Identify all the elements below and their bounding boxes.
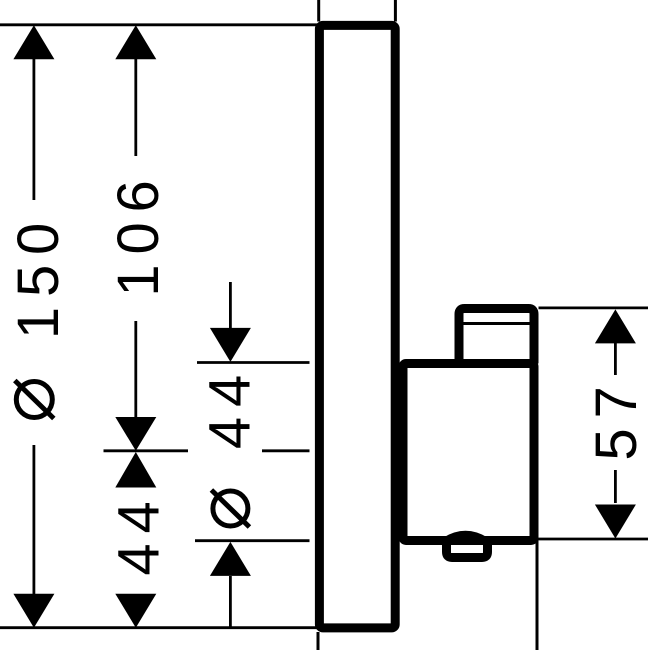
bottom tab: [447, 537, 488, 558]
bottom dimension line: [0, 626, 319, 629]
plate: vertical wall plate, side view: [319, 25, 395, 628]
extension line below handle: [536, 540, 539, 650]
arrow up Ø44 bottom: [210, 542, 251, 576]
arrow down 57 bottom: [595, 505, 636, 539]
svg-text:106: 106: [106, 170, 171, 296]
dim line 106 upper: [134, 59, 137, 156]
57 top extension line: [539, 306, 649, 309]
arrow up Ø150 top: [13, 25, 54, 59]
arrow down Ø150 bottom: [13, 594, 54, 628]
tick: handle bottom projection: [195, 539, 310, 542]
svg-text:57: 57: [584, 376, 649, 460]
extension line below plate: [317, 632, 320, 650]
arrow down Ø44 top: [210, 328, 251, 362]
handle body: [403, 364, 534, 541]
arrow up 57 top: [595, 309, 636, 343]
arrow down 44 bottom: [115, 594, 156, 628]
dim line 57 lower: [614, 470, 617, 503]
arrow up 106 top: [115, 25, 156, 59]
tick: handle top projection: [197, 361, 310, 364]
svg-text:150: 150: [6, 213, 71, 339]
handle step (top): [459, 309, 534, 364]
arrow up bowtie 44 lower: [115, 452, 156, 488]
dim line 106 lower: [134, 321, 137, 418]
57 bottom extension line: [536, 538, 649, 541]
tab bump on body bottom edge: [445, 534, 486, 540]
tick: handle centre projection (right part): [262, 449, 310, 452]
tick: handle centre projection (left part): [104, 449, 189, 452]
dim line Ø150 lower: [33, 445, 36, 594]
top dimension line: [0, 23, 319, 26]
diameter symbol for 44: [211, 490, 249, 527]
extension line above plate right: [394, 0, 397, 22]
svg-text:44: 44: [107, 491, 172, 575]
arrow down bowtie 44 upper: [115, 417, 156, 451]
dim line Ø44 lower: [229, 576, 232, 628]
diameter symbol for 150: [15, 381, 54, 419]
svg-text:44: 44: [198, 365, 263, 449]
step inner line: [464, 322, 530, 325]
dim line Ø44 upper: [229, 282, 232, 328]
dim line Ø150 upper: [33, 59, 36, 200]
dim line 57 upper: [614, 343, 617, 375]
extension line above plate left: [317, 0, 320, 22]
